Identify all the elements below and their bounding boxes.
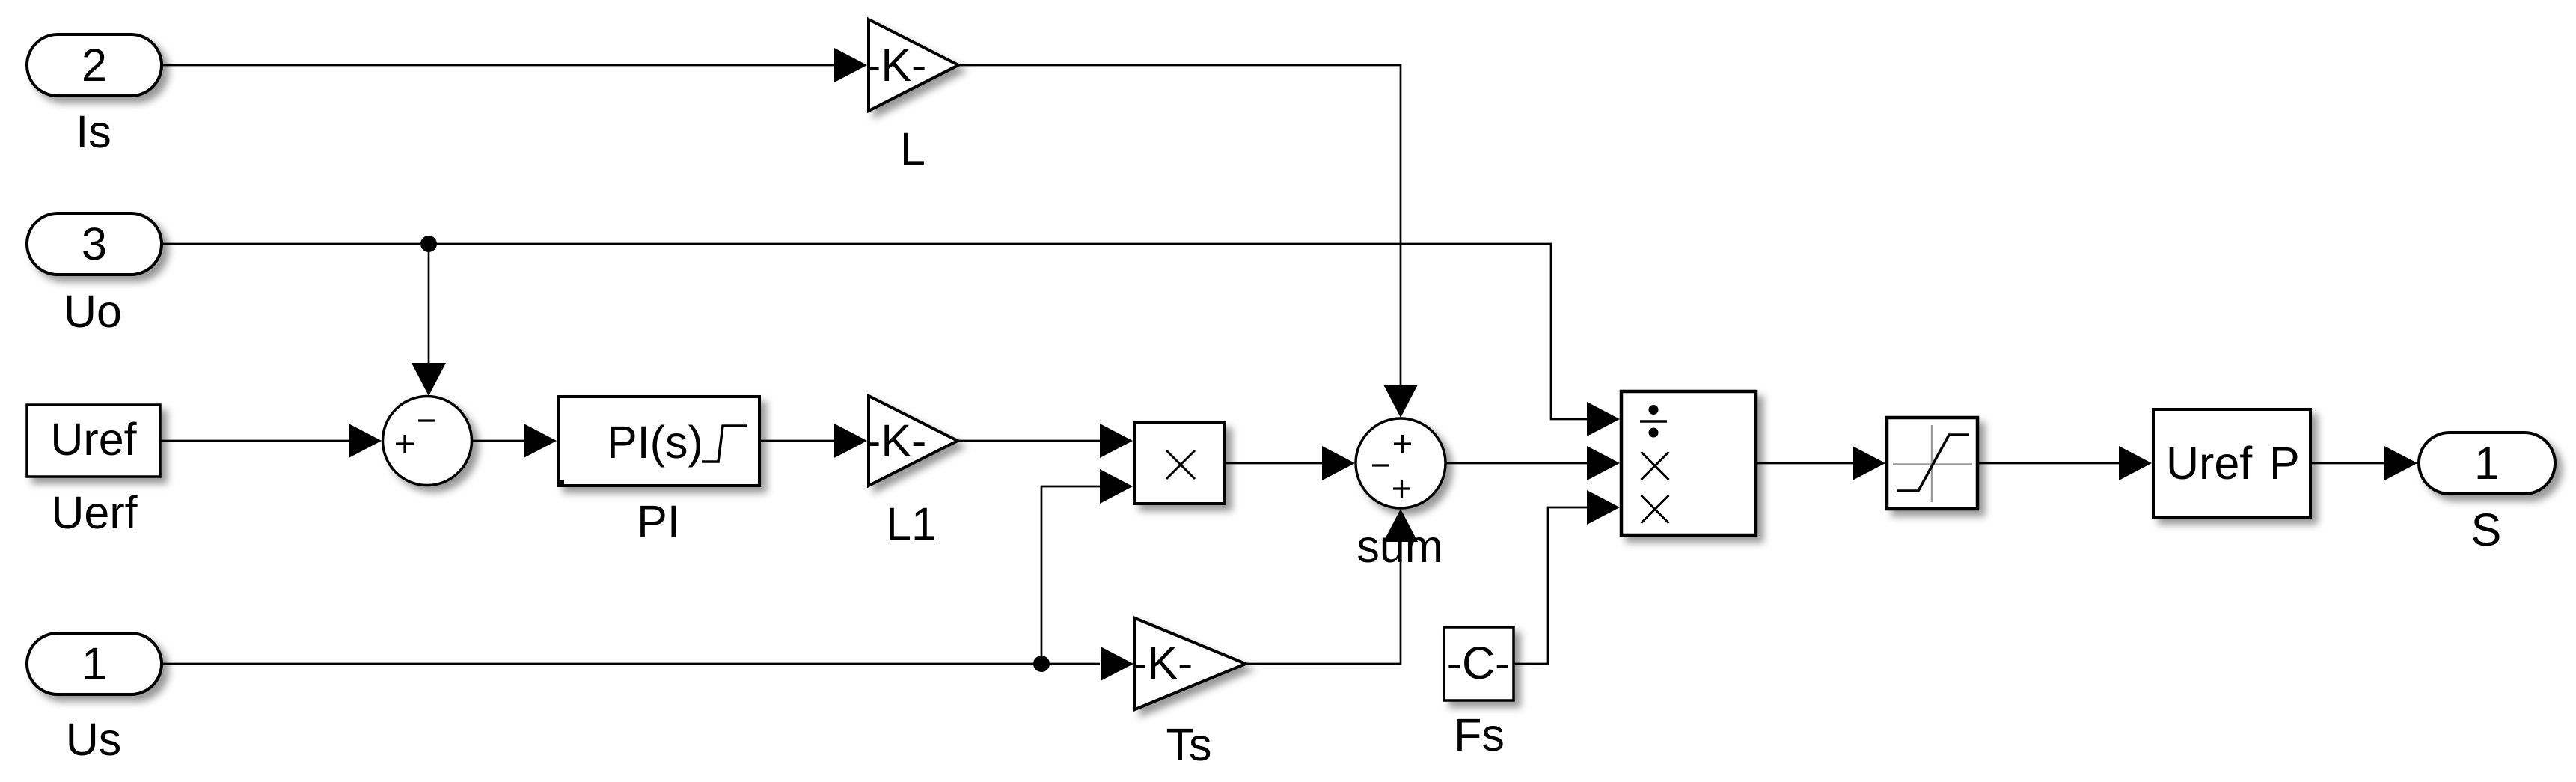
wire divide to saturation (1756, 462, 1853, 465)
divide X symbol 2 (1642, 495, 1669, 523)
wire Uo port to divide input 1 (162, 244, 1588, 419)
svg-text:-K-: -K- (1132, 638, 1193, 688)
arrowhead into gain Ts (1101, 647, 1133, 681)
arrowhead into PI (524, 424, 557, 458)
svg-text:-K-: -K- (866, 415, 926, 466)
svg-text:Uerf: Uerf (51, 487, 138, 538)
svg-text:1: 1 (2474, 438, 2500, 489)
input port 1 (Us) (27, 633, 162, 694)
wire gain L1 to product input 1 (958, 440, 1100, 442)
svg-text:sum: sum (1356, 521, 1443, 572)
saturation curve (1897, 435, 1969, 491)
arrowhead into gain L1 (834, 424, 867, 458)
svg-text:1: 1 (82, 638, 107, 689)
arrowhead into subsystem (2119, 446, 2152, 480)
wire sum1 to PI (472, 440, 524, 442)
svg-text:S: S (2471, 504, 2502, 555)
sum1 plus sign (396, 435, 414, 453)
subsystem block Uref P (2153, 409, 2310, 517)
divide X symbol 1 (1642, 452, 1669, 480)
sum circle (+ - +) (1356, 418, 1445, 508)
wire Is port to gain L (162, 64, 834, 67)
arrowhead into output port S (2384, 446, 2417, 480)
svg-text:3: 3 (82, 219, 107, 269)
wire junction up to product input 2 (1041, 486, 1100, 664)
arrowhead down into sum top (1383, 385, 1418, 418)
svg-text:PI(s): PI(s) (607, 417, 703, 468)
PI block corner notch (559, 480, 564, 486)
wire sum to divide input 2 (1445, 462, 1588, 465)
wire Us port to gain Ts (162, 663, 1100, 665)
svg-text:PI: PI (637, 496, 680, 547)
svg-text:L: L (900, 123, 926, 174)
svg-text:L1: L1 (886, 498, 937, 549)
PI(s) transfer block (558, 397, 759, 486)
input port 3 (Uo) (27, 213, 162, 275)
input port 2 (Is) (27, 34, 162, 96)
svg-text:Uref: Uref (50, 414, 137, 465)
svg-text:2: 2 (82, 40, 107, 91)
output port 1 (S) (2419, 433, 2555, 494)
sum left minus sign (1372, 464, 1389, 466)
wire Uref to sum1 (160, 440, 349, 442)
arrowhead into product input 2 (1100, 469, 1133, 504)
svg-text:Uref: Uref (2166, 438, 2253, 489)
wire Fs constant to divide input 3 (1514, 507, 1588, 664)
wire PI to gain L1 (759, 440, 834, 442)
divide block (1621, 391, 1756, 535)
svg-text:-K-: -K- (866, 40, 926, 91)
wire gain L to sum top (958, 65, 1401, 385)
wire subsystem to output port S (2310, 462, 2385, 465)
sum bottom plus sign (1393, 480, 1410, 498)
wire gain Ts to sum bottom (1246, 541, 1401, 664)
gain L triangle (869, 19, 958, 111)
svg-text:-C-: -C- (1447, 638, 1511, 688)
wire junction down to sum1 top (428, 244, 430, 364)
svg-text:Ts: Ts (1166, 719, 1212, 770)
product block (1134, 423, 1225, 504)
svg-text:Uo: Uo (64, 286, 122, 337)
sum1 minus sign (418, 419, 435, 421)
PI block saturation glyph (702, 426, 747, 462)
sum top plus sign (1394, 435, 1411, 453)
product X symbol (1166, 450, 1195, 479)
arrowhead into sum1 left (349, 424, 382, 458)
arrowhead into gain L (834, 48, 867, 82)
saturation block (1887, 418, 1977, 509)
constant block -C- (Fs) (1444, 627, 1514, 700)
constant block Uref (27, 405, 160, 477)
wire saturation to subsystem (1977, 462, 2120, 465)
junction on Uo wire (420, 236, 437, 252)
divide symbol (1640, 405, 1667, 438)
svg-text:Fs: Fs (1454, 709, 1505, 760)
svg-text:Is: Is (76, 106, 111, 157)
arrowhead into divide input 2 (1587, 446, 1620, 480)
arrowhead down into sum1 top (412, 363, 446, 396)
gain L1 triangle (869, 396, 958, 486)
arrowhead into saturation (1853, 446, 1885, 480)
svg-text:P: P (2269, 438, 2300, 489)
arrowhead into divide input 1 (1587, 402, 1620, 436)
arrowhead into product input 1 (1100, 424, 1133, 458)
arrowhead up into sum bottom (1383, 509, 1418, 542)
wire product to sum (1225, 462, 1322, 465)
gain Ts triangle (1135, 618, 1246, 709)
arrowhead into sum left (1322, 446, 1355, 480)
junction on Us wire (1033, 656, 1050, 672)
sum1 circle (+/-) (383, 397, 472, 486)
saturation axes (1893, 425, 1972, 502)
arrowhead into divide input 3 (1587, 490, 1620, 525)
svg-text:Us: Us (66, 714, 122, 765)
